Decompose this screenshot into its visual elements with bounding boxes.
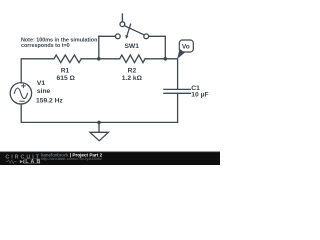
svg-text:LAB: LAB bbox=[25, 159, 42, 165]
wire bottom rail bbox=[21, 104, 177, 122]
node flag Vo pointer bbox=[177, 49, 185, 59]
wire R2 left lead bbox=[99, 58, 120, 60]
svg-text:V1: V1 bbox=[37, 80, 45, 87]
svg-text:corresponds to t=0: corresponds to t=0 bbox=[21, 43, 70, 49]
svg-text:Vo: Vo bbox=[182, 43, 190, 50]
voltage source V1 bbox=[10, 83, 31, 104]
wire switch branch left horizontal bbox=[99, 35, 116, 37]
svg-text:615 Ω: 615 Ω bbox=[57, 75, 76, 82]
svg-text:sine: sine bbox=[37, 88, 51, 95]
wire top rail left (V1 top to R1) bbox=[21, 59, 54, 83]
node A junction dot bbox=[97, 57, 101, 61]
svg-text:http://circuitlab.com/c/75c3y4: http://circuitlab.com/c/75c3y4t48b6v bbox=[41, 157, 102, 161]
switch arrow head bbox=[125, 35, 128, 39]
svg-text:SW1: SW1 bbox=[124, 43, 139, 50]
logo resistor squiggle bbox=[6, 160, 17, 163]
logo LAB badge bbox=[24, 159, 39, 164]
svg-text:1.2 kΩ: 1.2 kΩ bbox=[122, 75, 143, 82]
wire switch branch left vertical bbox=[98, 36, 100, 59]
wire switch branch right vertical bbox=[164, 36, 166, 59]
wire node B to Vo corner bbox=[165, 59, 177, 90]
wire R1 to node A bbox=[81, 58, 99, 60]
ground junction dot bbox=[97, 121, 101, 125]
resistor R1 bbox=[54, 55, 81, 63]
svg-text:10 µF: 10 µF bbox=[191, 92, 208, 99]
switch SW1 bbox=[115, 14, 148, 39]
wire switch branch right horizontal bbox=[149, 35, 166, 37]
capacitor C1 bbox=[164, 89, 191, 93]
wire C1 bottom to rail bbox=[177, 93, 179, 122]
svg-text:R1: R1 bbox=[61, 67, 70, 74]
logo diode bbox=[20, 160, 23, 163]
footer bar bbox=[0, 152, 220, 166]
node B junction dot bbox=[164, 57, 168, 61]
wire R2 right lead bbox=[145, 58, 165, 60]
svg-text:159.2 Hz: 159.2 Hz bbox=[36, 97, 63, 104]
node flag Vo box bbox=[179, 40, 193, 52]
resistor R2 bbox=[120, 55, 145, 63]
ground bbox=[90, 122, 108, 140]
svg-text:R2: R2 bbox=[128, 67, 137, 74]
